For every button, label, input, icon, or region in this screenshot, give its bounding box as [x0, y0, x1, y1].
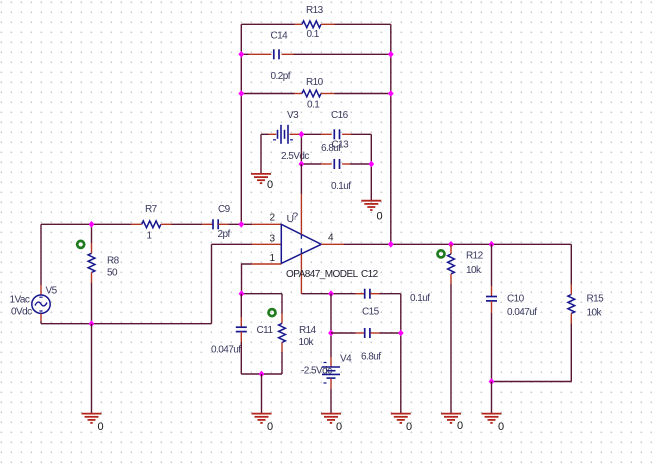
- op-amp V- power pin: [300, 248, 302, 293]
- ground below C16: [361, 201, 381, 210]
- resistor R12 pin bottom: [450, 274, 452, 284]
- resistor R7 pin right: [161, 223, 172, 225]
- wire R12 to ground: [450, 284, 452, 414]
- capacitor C11: [236, 327, 247, 331]
- capacitor C12 pin right: [370, 293, 379, 295]
- resistor R7: [142, 221, 161, 228]
- junction R8 bottom: [89, 320, 95, 327]
- resistor R8: [88, 253, 95, 272]
- resistor R12: [448, 254, 455, 274]
- capacitor C9 pin right: [218, 223, 228, 225]
- svg-text:V3: V3: [287, 110, 299, 121]
- junction R10 row left: [238, 90, 244, 97]
- ground below V4: [321, 414, 341, 423]
- wire feedback right vertical: [390, 24, 392, 244]
- capacitor C10 pin top: [491, 286, 493, 296]
- resistor R15: [568, 295, 575, 314]
- wire top feedback row right: [335, 23, 391, 25]
- svg-text:R13: R13: [306, 5, 324, 16]
- wire pin1 node row: [242, 293, 283, 295]
- wire C15 row right: [380, 332, 401, 334]
- resistor R10: [302, 90, 321, 97]
- resistor R12 pin top: [450, 244, 452, 254]
- wire output row: [344, 243, 571, 245]
- resistor R14 pin bottom: [281, 343, 283, 353]
- resistor R8 top wire: [91, 224, 93, 243]
- svg-text:0: 0: [267, 421, 273, 433]
- junction C14 row left: [238, 51, 244, 58]
- op-amp U? triangle: [281, 224, 321, 263]
- svg-text:2pf: 2pf: [218, 229, 231, 240]
- wire C16 row right: [351, 133, 371, 135]
- capacitor C11 pin top: [240, 317, 242, 327]
- ground below R8: [82, 414, 102, 423]
- svg-text:0: 0: [406, 421, 412, 433]
- svg-text:R10: R10: [306, 77, 324, 88]
- junction C15 right: [398, 330, 404, 337]
- wire C14 row right: [294, 53, 391, 55]
- wire V3 ground drop: [260, 134, 262, 174]
- junction R12 top: [448, 241, 454, 248]
- op-amp U? pin 4 stub: [321, 243, 344, 245]
- wire R10 row left: [241, 93, 294, 95]
- wire R15 lower: [570, 324, 572, 382]
- wire R15 upper: [570, 244, 572, 284]
- svg-text:0.047uf: 0.047uf: [507, 307, 537, 318]
- wire C11 R14 bottom row: [241, 373, 282, 375]
- wire to ground below C10: [491, 382, 493, 414]
- wire C10 R15 bottom row: [492, 381, 572, 383]
- wire V- rail right: [380, 293, 401, 295]
- junction C13 right: [368, 161, 374, 168]
- voltage marker at output: [438, 250, 445, 257]
- svg-text:10k: 10k: [299, 337, 315, 348]
- wire R8 bottom: [91, 283, 93, 324]
- junction pin1 node: [239, 290, 245, 297]
- source V4 pin bottom: [330, 379, 332, 390]
- capacitor C15: [365, 328, 370, 338]
- wire C11 upper: [240, 294, 242, 317]
- svg-text:C10: C10: [507, 293, 525, 304]
- svg-text:50: 50: [107, 267, 118, 278]
- svg-text:0.2pf: 0.2pf: [271, 71, 291, 82]
- resistor R7 pin left: [131, 223, 142, 225]
- voltage marker at R14: [269, 309, 276, 316]
- svg-text:V4: V4: [340, 353, 352, 364]
- svg-text:-2.5Vdc: -2.5Vdc: [301, 365, 332, 376]
- wire R10 row right: [335, 93, 391, 95]
- svg-text:OPA847_MODEL: OPA847_MODEL: [286, 269, 359, 280]
- capacitor C14 pin left: [249, 53, 272, 55]
- wire C16 right vertical: [370, 134, 372, 200]
- capacitor C13: [334, 159, 339, 169]
- svg-text:4: 4: [328, 232, 334, 243]
- svg-text:0: 0: [457, 420, 463, 432]
- capacitor C11 pin bottom: [240, 332, 242, 342]
- source V5 pin bottom: [40, 314, 42, 321]
- junction V+ C13 row: [299, 161, 305, 168]
- capacitor C10 pin bottom: [491, 301, 493, 313]
- wire C14 row left: [241, 53, 248, 55]
- voltage marker at R8: [77, 241, 84, 248]
- wire feedback left vertical: [240, 24, 242, 224]
- wire V- rail left: [301, 293, 355, 295]
- svg-text:0: 0: [498, 421, 504, 433]
- resistor R8 pin top: [91, 243, 93, 253]
- op-amp U? pin 2 stub: [252, 223, 281, 225]
- wire V5 bottom: [40, 321, 42, 324]
- wire C10 lower: [491, 313, 493, 382]
- svg-text:R8: R8: [107, 255, 120, 266]
- svg-text:R7: R7: [145, 204, 158, 215]
- wire top feedback row left: [241, 23, 294, 25]
- svg-text:6.8uf: 6.8uf: [361, 352, 381, 363]
- resistor R8 pin bottom: [91, 273, 93, 284]
- wire pin3 vertical: [211, 244, 213, 323]
- capacitor C9 pin left: [202, 223, 213, 225]
- svg-text:C12: C12: [361, 269, 379, 280]
- svg-text:C14: C14: [271, 30, 289, 41]
- wire V5 top vertical: [40, 224, 42, 285]
- capacitor C16 pin left: [321, 133, 332, 135]
- ground below rail: [391, 414, 411, 423]
- wire C13 row left: [301, 163, 321, 165]
- wire R7 to C9: [172, 223, 203, 225]
- svg-text:1Vac: 1Vac: [10, 295, 30, 306]
- capacitor C14 pin right: [282, 53, 294, 55]
- wire to ground below C11: [261, 374, 263, 414]
- svg-text:C9: C9: [218, 204, 231, 215]
- svg-text:R14: R14: [299, 325, 317, 336]
- source V4 battery: [322, 363, 340, 384]
- resistor R13: [302, 21, 321, 28]
- wire V+ node vertical: [300, 134, 302, 164]
- wire V3 to node: [299, 133, 302, 135]
- junction R10 row right: [388, 90, 394, 97]
- junction C11 R14 bottom: [259, 371, 265, 378]
- svg-text:0.1: 0.1: [307, 29, 320, 40]
- resistor R13 pin left: [295, 23, 303, 25]
- capacitor C15 pin left: [356, 332, 365, 334]
- svg-text:0: 0: [98, 421, 104, 433]
- wire R14 lower: [281, 352, 283, 374]
- wire C9 to node: [229, 223, 253, 225]
- svg-text:0.1uf: 0.1uf: [410, 293, 430, 304]
- svg-text:R15: R15: [587, 293, 605, 304]
- svg-text:1: 1: [270, 253, 276, 264]
- resistor R10 pin left: [295, 93, 303, 95]
- junction V4 top: [328, 290, 334, 297]
- source V5 pin top: [40, 285, 42, 295]
- wire pin1 corner: [242, 264, 252, 294]
- capacitor C13 pin left: [321, 163, 332, 165]
- capacitor C9: [213, 219, 218, 229]
- capacitor C12: [365, 289, 370, 299]
- ground below C10: [482, 414, 502, 423]
- svg-text:C11: C11: [257, 325, 274, 336]
- op-amp U? pin 1 stub: [252, 263, 282, 265]
- op-amp V+ power pin: [300, 194, 302, 239]
- capacitor C16: [334, 129, 339, 139]
- svg-text:V5: V5: [46, 286, 58, 297]
- capacitor C10: [486, 297, 497, 301]
- resistor R15 pin bottom: [570, 314, 572, 324]
- wire R14 upper: [281, 294, 283, 314]
- op-amp U? pin 3 stub: [252, 243, 281, 245]
- svg-text:10k: 10k: [466, 265, 482, 276]
- capacitor C13 pin right: [342, 163, 350, 165]
- svg-text:0: 0: [336, 421, 342, 433]
- resistor R14 pin top: [281, 314, 283, 324]
- ground below C11 R14: [252, 414, 272, 423]
- wire V+ rail to op-amp: [300, 164, 302, 194]
- source V3 pin left: [269, 133, 277, 135]
- capacitor C15 pin right: [370, 332, 379, 334]
- capacitor C14: [274, 49, 279, 59]
- svg-text:C15: C15: [362, 306, 380, 317]
- junction C14 row right: [388, 51, 394, 58]
- svg-text:C13: C13: [332, 140, 350, 151]
- wire C15 row left: [331, 332, 356, 334]
- wire input row: [41, 223, 131, 225]
- wire C13 row right: [350, 163, 371, 165]
- svg-text:0.1: 0.1: [307, 99, 320, 110]
- resistor R13 pin right: [321, 23, 335, 25]
- resistor R15 pin top: [570, 285, 572, 295]
- svg-text:R12: R12: [466, 250, 484, 261]
- svg-text:0.1uf: 0.1uf: [331, 181, 351, 192]
- wire R8 ground drop: [91, 324, 93, 414]
- wire rail right vertical: [400, 294, 402, 414]
- svg-text:0Vdc: 0Vdc: [11, 307, 32, 318]
- wire V4 to ground: [330, 389, 332, 414]
- wire V3 left lead: [261, 133, 269, 135]
- source V3 pin right: [290, 133, 299, 135]
- junction R8 top: [89, 221, 95, 228]
- svg-text:2: 2: [270, 213, 276, 224]
- svg-text:C16: C16: [331, 110, 349, 121]
- resistor R14: [279, 323, 286, 342]
- svg-text:0: 0: [377, 211, 383, 223]
- ground below V3: [251, 174, 271, 183]
- source V5 VSIN: [32, 295, 50, 313]
- svg-text:0.047uf: 0.047uf: [211, 344, 241, 355]
- wire C11 lower: [240, 342, 242, 374]
- junction V3 node: [299, 131, 305, 138]
- capacitor C16 pin right: [342, 133, 351, 135]
- wire pin3 row: [212, 243, 253, 245]
- resistor R10 pin right: [321, 93, 335, 95]
- wire V4 vertical upper: [330, 294, 332, 357]
- svg-text:1: 1: [147, 230, 153, 241]
- ground below R12: [441, 414, 461, 423]
- svg-text:2.5Vdc: 2.5Vdc: [281, 151, 309, 162]
- junction feedback input node: [238, 221, 244, 228]
- capacitor C12 pin left: [356, 293, 365, 295]
- junction C15 left: [328, 330, 334, 337]
- wire V5 return row: [41, 323, 212, 325]
- svg-text:10k: 10k: [587, 307, 603, 318]
- svg-text:0: 0: [267, 179, 273, 191]
- wire C10 upper: [491, 244, 493, 286]
- junction feedback output node: [388, 241, 394, 248]
- wire C16 row left: [301, 133, 321, 135]
- svg-text:?: ?: [292, 211, 298, 223]
- svg-text:3: 3: [270, 233, 276, 244]
- source V4 pin top: [330, 357, 332, 367]
- junction C10 top: [489, 241, 495, 248]
- source V3 battery: [273, 125, 293, 144]
- junction C10 bottom: [489, 378, 495, 385]
